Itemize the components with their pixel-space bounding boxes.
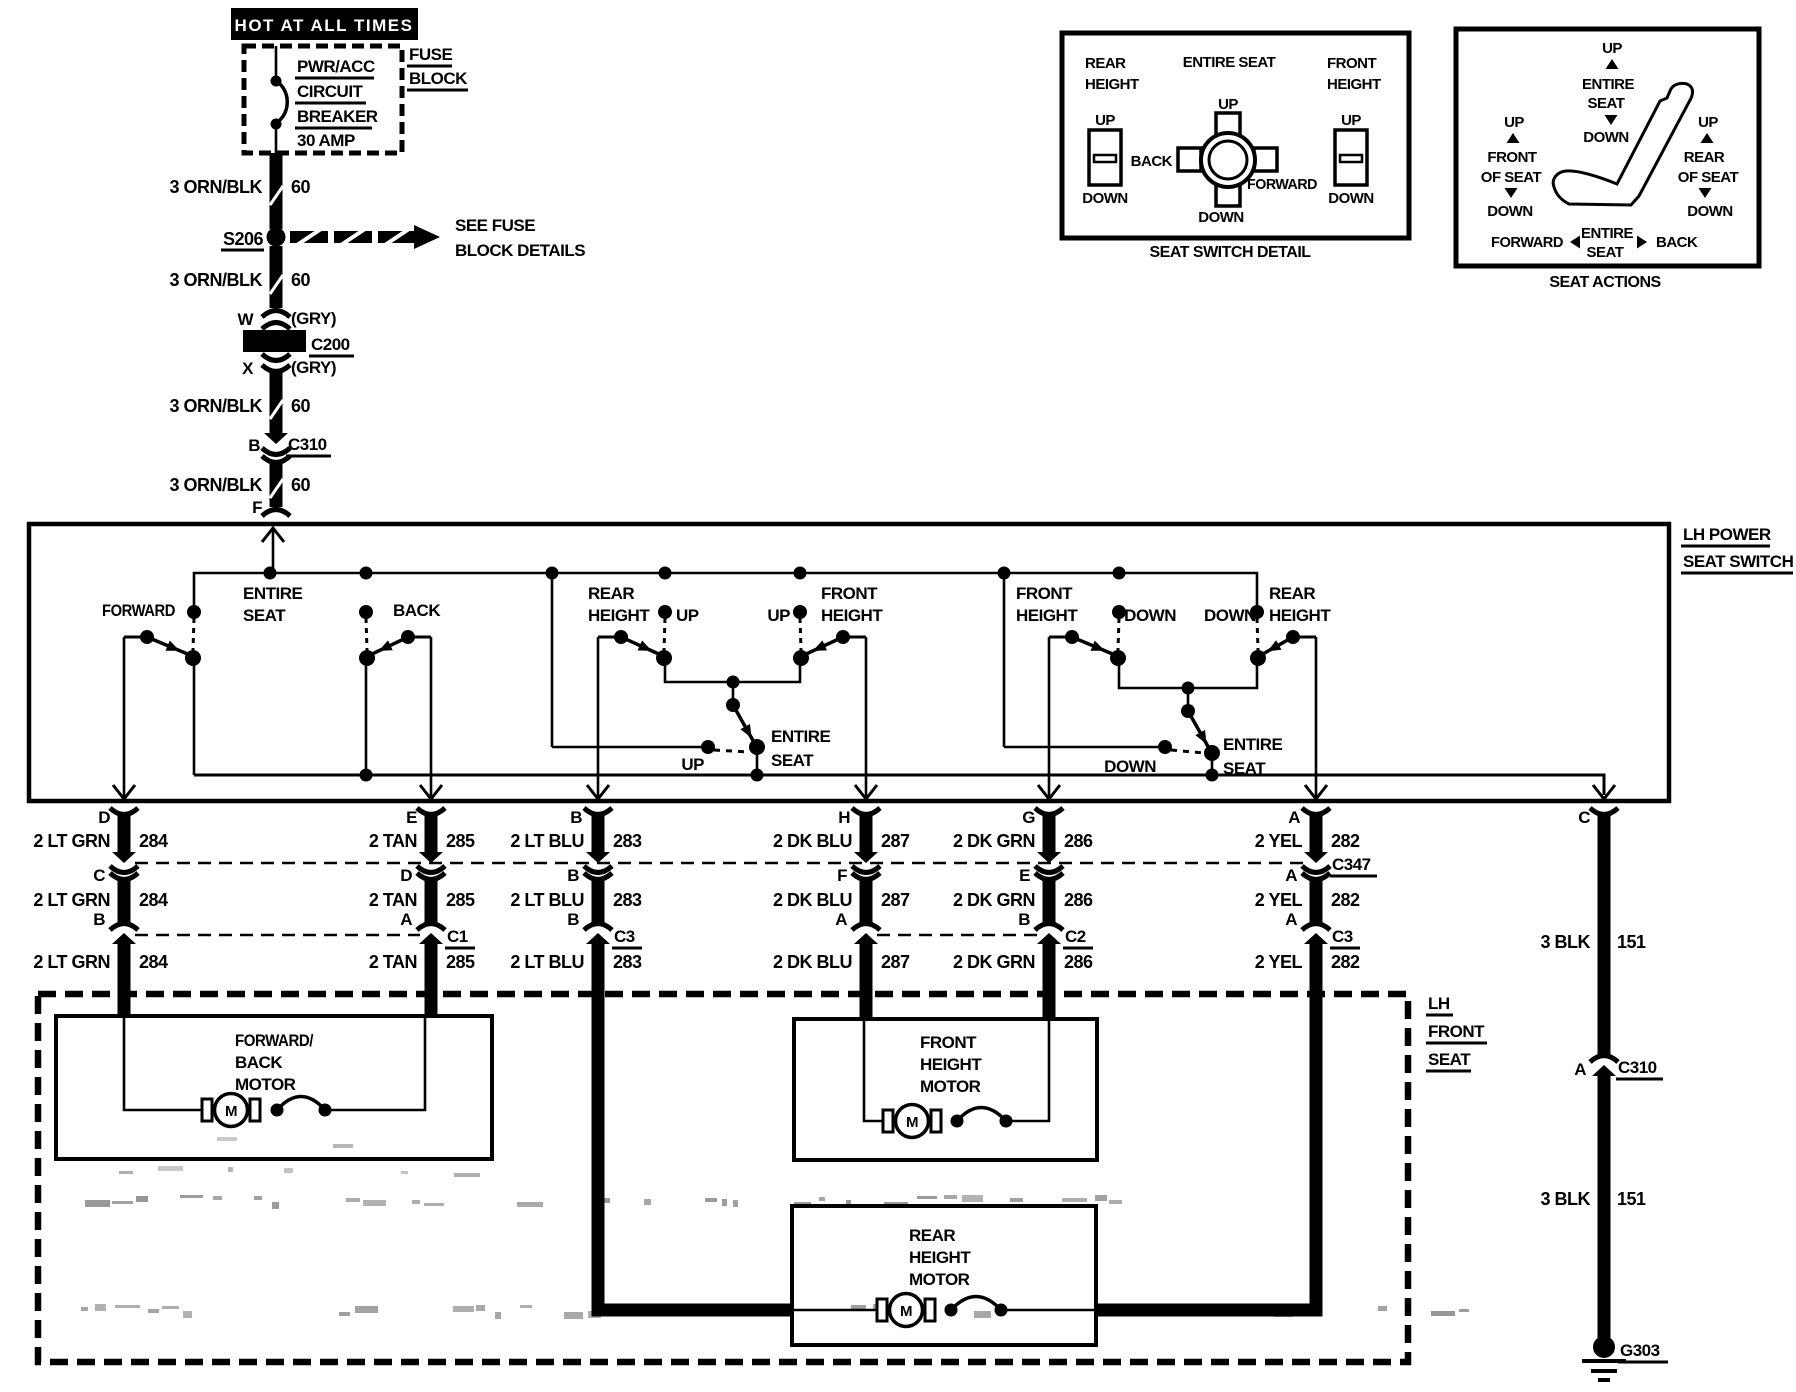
svg-text:UP: UP bbox=[681, 755, 704, 774]
svg-text:W: W bbox=[237, 310, 254, 329]
svg-text:PWR/ACC: PWR/ACC bbox=[297, 57, 375, 76]
svg-text:UP: UP bbox=[1341, 112, 1361, 129]
switch ENTIRE SEAT DOWN bbox=[1004, 573, 1283, 778]
svg-text:SEAT: SEAT bbox=[1428, 1050, 1471, 1069]
switch contact: REAR HEIGHT UP to pin B bbox=[587, 605, 672, 799]
svg-text:2 DK GRN: 2 DK GRN bbox=[953, 952, 1035, 972]
switch REAR HEIGHT DOWN bbox=[1204, 606, 1256, 625]
svg-text:X: X bbox=[242, 359, 254, 378]
svg-text:284: 284 bbox=[139, 831, 168, 851]
label REAR HEIGHT (left) bbox=[588, 584, 650, 625]
svg-text:DOWN: DOWN bbox=[1583, 129, 1629, 146]
svg-text:G303: G303 bbox=[1620, 1341, 1660, 1360]
svg-text:A: A bbox=[400, 910, 412, 929]
svg-text:D: D bbox=[400, 866, 412, 885]
svg-text:BACK: BACK bbox=[1656, 234, 1698, 251]
svg-text:DOWN: DOWN bbox=[1124, 606, 1176, 625]
splice S206 bbox=[221, 228, 286, 251]
svg-text:(GRY): (GRY) bbox=[291, 309, 336, 328]
svg-text:HEIGHT: HEIGHT bbox=[909, 1248, 971, 1267]
svg-text:2 DK GRN: 2 DK GRN bbox=[953, 831, 1035, 851]
svg-text:MOTOR: MOTOR bbox=[235, 1075, 296, 1094]
svg-text:UP: UP bbox=[676, 606, 699, 625]
svg-text:2 DK BLU: 2 DK BLU bbox=[773, 890, 852, 910]
svg-text:3 ORN/BLK: 3 ORN/BLK bbox=[169, 270, 262, 290]
svg-text:FRONT: FRONT bbox=[1327, 55, 1376, 72]
svg-text:287: 287 bbox=[881, 952, 910, 972]
front height motor bbox=[794, 1019, 1097, 1160]
svg-text:282: 282 bbox=[1331, 831, 1360, 851]
svg-text:3 ORN/BLK: 3 ORN/BLK bbox=[169, 475, 262, 495]
wire 2 YEL 282 (pin A) bbox=[1096, 812, 1316, 1310]
svg-text:FRONT: FRONT bbox=[1016, 584, 1073, 603]
svg-text:SEAT: SEAT bbox=[243, 606, 286, 625]
svg-text:C: C bbox=[1578, 808, 1590, 827]
switch contact: BACK to pin E bbox=[359, 605, 442, 799]
svg-text:284: 284 bbox=[139, 952, 168, 972]
switch contact: FRONT HEIGHT UP to pin H bbox=[793, 605, 877, 799]
svg-text:F: F bbox=[252, 498, 262, 517]
svg-text:BACK: BACK bbox=[1131, 153, 1173, 170]
svg-text:FORWARD: FORWARD bbox=[1247, 176, 1318, 193]
wire 2 LT BLU 283 (pin B) bbox=[598, 812, 794, 1310]
svg-text:BLOCK DETAILS: BLOCK DETAILS bbox=[455, 241, 585, 260]
label REAR HEIGHT (right) bbox=[1269, 584, 1331, 625]
svg-text:BACK: BACK bbox=[393, 601, 441, 620]
svg-text:DOWN: DOWN bbox=[1104, 757, 1156, 776]
ground G303 bbox=[1582, 1336, 1668, 1380]
svg-text:FORWARD: FORWARD bbox=[102, 601, 175, 620]
wire labels row 2 bbox=[33, 890, 1360, 910]
svg-text:HEIGHT: HEIGHT bbox=[1016, 606, 1078, 625]
switch FORWARD bbox=[102, 601, 175, 620]
svg-text:CIRCUIT: CIRCUIT bbox=[297, 82, 364, 101]
svg-text:2 DK GRN: 2 DK GRN bbox=[953, 890, 1035, 910]
svg-text:HEIGHT: HEIGHT bbox=[1085, 76, 1139, 93]
svg-text:BACK: BACK bbox=[235, 1053, 283, 1072]
wire 3 ORN/BLK 60 (S206 to C200) bbox=[169, 246, 310, 308]
svg-text:282: 282 bbox=[1331, 952, 1360, 972]
svg-text:B: B bbox=[567, 910, 579, 929]
svg-text:BLOCK: BLOCK bbox=[409, 69, 468, 88]
label FRONT HEIGHT (right-center) bbox=[1016, 584, 1078, 625]
wire 3 BLK 151 (C310 to G303) bbox=[1540, 1071, 1646, 1338]
svg-text:SEAT SWITCH DETAIL: SEAT SWITCH DETAIL bbox=[1149, 244, 1311, 261]
svg-text:M: M bbox=[900, 1303, 912, 1320]
pin row on switch (D E B H G A C) bbox=[98, 808, 1618, 827]
svg-text:E: E bbox=[1019, 866, 1030, 885]
svg-text:286: 286 bbox=[1064, 890, 1093, 910]
svg-text:DOWN: DOWN bbox=[1082, 190, 1128, 207]
svg-text:3 BLK: 3 BLK bbox=[1540, 932, 1590, 952]
svg-text:B: B bbox=[93, 910, 105, 929]
svg-text:M: M bbox=[906, 1114, 918, 1131]
svg-text:(GRY): (GRY) bbox=[291, 358, 336, 377]
svg-text:A: A bbox=[1285, 910, 1297, 929]
svg-text:HEIGHT: HEIGHT bbox=[920, 1055, 982, 1074]
svg-text:287: 287 bbox=[881, 831, 910, 851]
svg-text:DOWN: DOWN bbox=[1198, 209, 1244, 226]
svg-text:C: C bbox=[93, 866, 105, 885]
svg-text:HEIGHT: HEIGHT bbox=[1269, 606, 1331, 625]
svg-text:2 YEL: 2 YEL bbox=[1255, 890, 1303, 910]
svg-text:2 LT GRN: 2 LT GRN bbox=[33, 890, 110, 910]
svg-text:3 ORN/BLK: 3 ORN/BLK bbox=[169, 396, 262, 416]
svg-text:B: B bbox=[248, 436, 260, 455]
svg-text:60: 60 bbox=[291, 396, 311, 416]
return bus to pin C bbox=[194, 658, 1615, 799]
svg-text:ENTIRE: ENTIRE bbox=[1582, 76, 1635, 93]
svg-text:C2: C2 bbox=[1065, 927, 1086, 946]
svg-text:C347: C347 bbox=[1332, 855, 1371, 874]
svg-text:2 LT GRN: 2 LT GRN bbox=[33, 831, 110, 851]
switch feed from pin F and supply bus bbox=[194, 528, 1257, 612]
svg-text:B: B bbox=[567, 866, 579, 885]
svg-text:FUSE: FUSE bbox=[409, 45, 453, 64]
fuse block (dashed outline) bbox=[244, 45, 468, 153]
switch ENTIRE SEAT UP bbox=[552, 573, 831, 775]
svg-text:A: A bbox=[1574, 1060, 1586, 1079]
svg-text:C3: C3 bbox=[1332, 927, 1353, 946]
svg-text:B: B bbox=[570, 808, 582, 827]
svg-text:REAR: REAR bbox=[588, 584, 634, 603]
svg-text:FORWARD/: FORWARD/ bbox=[235, 1031, 314, 1050]
scan noise (faint speckle bands) bbox=[85, 1195, 1122, 1209]
svg-text:BREAKER: BREAKER bbox=[297, 107, 378, 126]
svg-text:DOWN: DOWN bbox=[1204, 606, 1256, 625]
svg-text:A: A bbox=[1285, 866, 1297, 885]
svg-text:HOT AT ALL TIMES: HOT AT ALL TIMES bbox=[235, 16, 414, 35]
switch FRONT HEIGHT UP bbox=[767, 606, 790, 625]
inset: SEAT SWITCH DETAIL bbox=[1062, 33, 1409, 261]
wire 3 ORN/BLK 60 (breaker to S206) bbox=[169, 153, 310, 229]
svg-text:S206: S206 bbox=[223, 229, 264, 249]
connector C310 (pin A, ground wire) bbox=[1574, 1056, 1663, 1080]
svg-text:SEAT ACTIONS: SEAT ACTIONS bbox=[1549, 274, 1661, 291]
svg-text:282: 282 bbox=[1331, 890, 1360, 910]
svg-text:C310: C310 bbox=[1618, 1058, 1657, 1077]
svg-text:UP: UP bbox=[1504, 114, 1524, 131]
svg-text:ENTIRE: ENTIRE bbox=[1581, 225, 1634, 242]
svg-text:283: 283 bbox=[613, 890, 642, 910]
svg-text:OF SEAT: OF SEAT bbox=[1678, 169, 1739, 186]
svg-text:2 YEL: 2 YEL bbox=[1255, 952, 1303, 972]
connector C200 (pins W / X) bbox=[237, 309, 354, 378]
svg-text:M: M bbox=[225, 1103, 237, 1120]
wire 3 ORN/BLK 60 (C310 to switch pin F) bbox=[169, 461, 310, 517]
power feed label HOT AT ALL TIMES bbox=[231, 8, 418, 40]
svg-text:C1: C1 bbox=[447, 927, 468, 946]
svg-text:285: 285 bbox=[446, 952, 475, 972]
svg-text:285: 285 bbox=[446, 890, 475, 910]
svg-text:151: 151 bbox=[1617, 1189, 1646, 1209]
svg-text:FRONT: FRONT bbox=[1428, 1022, 1485, 1041]
svg-text:2 LT BLU: 2 LT BLU bbox=[510, 890, 584, 910]
svg-text:A: A bbox=[835, 910, 847, 929]
switch REAR HEIGHT UP bbox=[676, 606, 699, 625]
svg-text:FRONT: FRONT bbox=[920, 1033, 977, 1052]
svg-text:283: 283 bbox=[613, 831, 642, 851]
wire 3 ORN/BLK 60 (C200 to C310) bbox=[169, 370, 310, 433]
switch contact: FRONT HEIGHT DOWN to pin G bbox=[1038, 605, 1126, 799]
svg-text:FORWARD: FORWARD bbox=[1491, 234, 1564, 251]
svg-text:C200: C200 bbox=[311, 335, 350, 354]
svg-text:LH: LH bbox=[1428, 994, 1450, 1013]
svg-text:SEAT: SEAT bbox=[1587, 244, 1624, 261]
svg-text:286: 286 bbox=[1064, 831, 1093, 851]
svg-text:HEIGHT: HEIGHT bbox=[821, 606, 883, 625]
forward/back motor bbox=[56, 1016, 492, 1159]
inset: SEAT ACTIONS bbox=[1456, 29, 1759, 291]
wire labels row 3 bbox=[33, 952, 1360, 972]
svg-text:30 AMP: 30 AMP bbox=[297, 131, 355, 150]
svg-text:H: H bbox=[838, 808, 850, 827]
svg-text:HEIGHT: HEIGHT bbox=[1327, 76, 1381, 93]
svg-text:3 BLK: 3 BLK bbox=[1540, 1189, 1590, 1209]
svg-text:283: 283 bbox=[613, 952, 642, 972]
svg-text:DOWN: DOWN bbox=[1328, 190, 1374, 207]
dashed arrow: SEE FUSE BLOCK DETAILS bbox=[290, 216, 585, 260]
LH FRONT SEAT (dashed box) bbox=[38, 994, 1487, 1362]
svg-text:ENTIRE: ENTIRE bbox=[1223, 735, 1283, 754]
svg-text:284: 284 bbox=[139, 890, 168, 910]
svg-text:UP: UP bbox=[1602, 40, 1622, 57]
svg-text:2 TAN: 2 TAN bbox=[369, 831, 417, 851]
svg-text:G: G bbox=[1022, 808, 1035, 827]
svg-text:MOTOR: MOTOR bbox=[909, 1270, 970, 1289]
svg-text:DOWN: DOWN bbox=[1687, 203, 1733, 220]
svg-text:ENTIRE: ENTIRE bbox=[771, 727, 831, 746]
svg-text:LH POWER: LH POWER bbox=[1683, 525, 1771, 544]
wire 2 TAN 285 (pin E) bbox=[425, 812, 438, 1018]
switch FRONT HEIGHT DOWN bbox=[1124, 606, 1176, 625]
circuit breaker PWR/ACC 30 AMP bbox=[271, 46, 378, 153]
svg-text:SEAT: SEAT bbox=[1588, 95, 1625, 112]
svg-text:2 LT GRN: 2 LT GRN bbox=[33, 952, 110, 972]
switch contact: REAR HEIGHT DOWN to pin A bbox=[1250, 605, 1327, 799]
svg-text:REAR: REAR bbox=[1085, 55, 1126, 72]
svg-text:60: 60 bbox=[291, 270, 311, 290]
svg-text:UP: UP bbox=[1218, 96, 1238, 113]
svg-text:A: A bbox=[1288, 808, 1300, 827]
rear height motor bbox=[792, 1206, 1096, 1345]
LH POWER SEAT SWITCH box bbox=[29, 524, 1794, 801]
svg-text:UP: UP bbox=[767, 606, 790, 625]
wire 2 DK GRN 286 (pin G) bbox=[1043, 812, 1056, 1021]
wire labels row 1 bbox=[33, 831, 1360, 851]
svg-text:REAR: REAR bbox=[909, 1226, 955, 1245]
svg-text:F: F bbox=[837, 866, 847, 885]
wire 3 BLK 151 (pin C to C310) bbox=[1540, 812, 1646, 1055]
svg-text:2 TAN: 2 TAN bbox=[369, 952, 417, 972]
connector C310 (pin B) bbox=[248, 433, 331, 463]
svg-text:E: E bbox=[406, 808, 417, 827]
svg-text:B: B bbox=[1018, 910, 1030, 929]
svg-text:OF SEAT: OF SEAT bbox=[1481, 169, 1542, 186]
svg-text:UP: UP bbox=[1095, 112, 1115, 129]
switch contact: FORWARD to pin D bbox=[113, 605, 201, 799]
svg-text:2 TAN: 2 TAN bbox=[369, 890, 417, 910]
svg-text:2 YEL: 2 YEL bbox=[1255, 831, 1303, 851]
svg-text:MOTOR: MOTOR bbox=[920, 1077, 981, 1096]
label FRONT HEIGHT (left-center) bbox=[821, 584, 883, 625]
svg-text:HEIGHT: HEIGHT bbox=[588, 606, 650, 625]
label ENTIRE SEAT (forward/back) bbox=[243, 584, 303, 625]
svg-text:2 LT BLU: 2 LT BLU bbox=[510, 952, 584, 972]
svg-text:285: 285 bbox=[446, 831, 475, 851]
svg-text:C3: C3 bbox=[614, 927, 635, 946]
switch BACK bbox=[393, 601, 441, 620]
svg-text:60: 60 bbox=[291, 475, 311, 495]
svg-text:C310: C310 bbox=[288, 435, 327, 454]
svg-text:2 LT BLU: 2 LT BLU bbox=[510, 831, 584, 851]
svg-text:286: 286 bbox=[1064, 952, 1093, 972]
svg-text:DOWN: DOWN bbox=[1487, 203, 1533, 220]
svg-text:SEE FUSE: SEE FUSE bbox=[455, 216, 535, 235]
svg-text:2 DK BLU: 2 DK BLU bbox=[773, 952, 852, 972]
svg-text:151: 151 bbox=[1617, 932, 1646, 952]
svg-text:FRONT: FRONT bbox=[821, 584, 878, 603]
svg-text:ENTIRE: ENTIRE bbox=[243, 584, 303, 603]
svg-text:REAR: REAR bbox=[1684, 149, 1725, 166]
svg-text:REAR: REAR bbox=[1269, 584, 1315, 603]
svg-text:FRONT: FRONT bbox=[1487, 149, 1536, 166]
svg-text:D: D bbox=[98, 808, 110, 827]
svg-text:UP: UP bbox=[1698, 114, 1718, 131]
connector C347 (dashed row) bbox=[93, 852, 1377, 885]
svg-text:ENTIRE SEAT: ENTIRE SEAT bbox=[1183, 54, 1276, 71]
svg-text:60: 60 bbox=[291, 177, 311, 197]
wire 2 DK BLU 287 (pin H) bbox=[860, 812, 873, 1021]
svg-text:SEAT: SEAT bbox=[771, 751, 814, 770]
svg-text:287: 287 bbox=[881, 890, 910, 910]
connector row C1 C3 C2 C3 (dashed) bbox=[93, 910, 1360, 948]
wire 2 LT GRN 284 (pin D) bbox=[118, 812, 131, 1018]
svg-text:2 DK BLU: 2 DK BLU bbox=[773, 831, 852, 851]
svg-text:3 ORN/BLK: 3 ORN/BLK bbox=[169, 177, 262, 197]
svg-text:SEAT SWITCH: SEAT SWITCH bbox=[1683, 552, 1794, 571]
